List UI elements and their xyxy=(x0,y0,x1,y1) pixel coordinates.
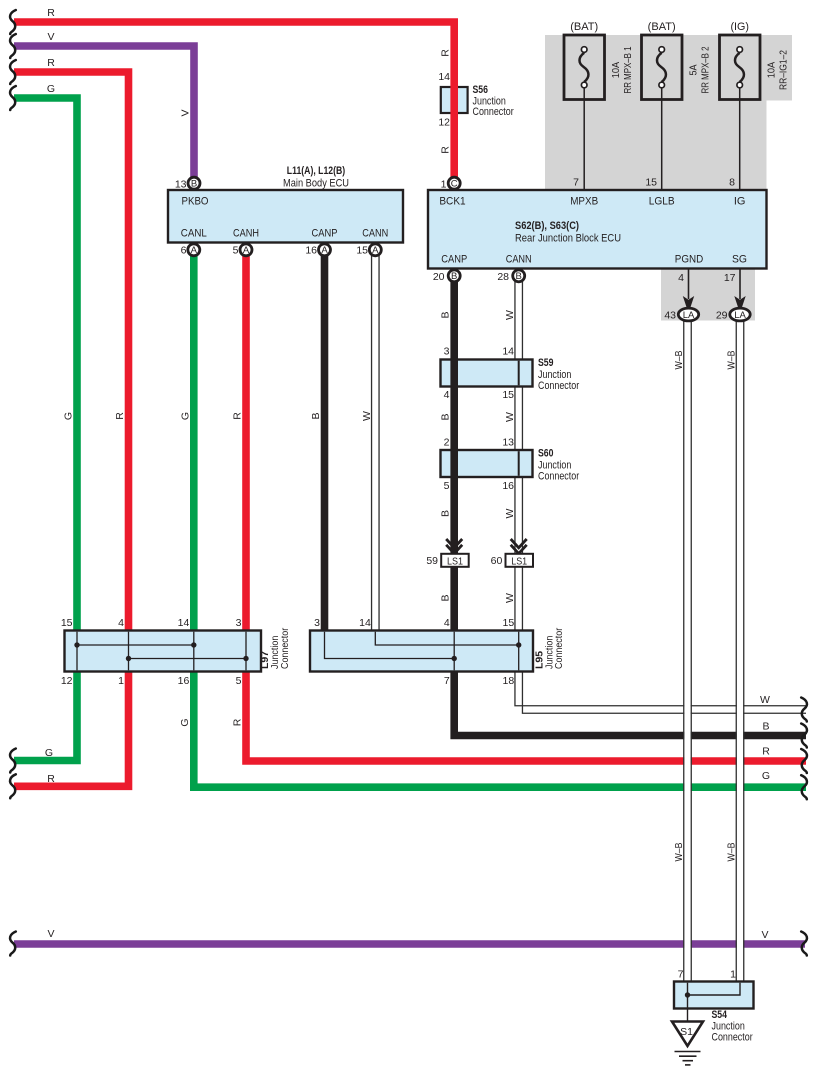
svg-text:G: G xyxy=(47,83,55,95)
svg-text:1: 1 xyxy=(118,675,124,687)
svg-text:5: 5 xyxy=(233,245,239,257)
wire fuse1 to MPXB xyxy=(583,88,585,191)
pin 1 C rear ECU xyxy=(448,177,460,189)
svg-text:V: V xyxy=(47,928,54,940)
svg-text:SG: SG xyxy=(732,254,747,266)
svg-text:IG: IG xyxy=(734,196,746,208)
svg-text:B: B xyxy=(440,311,452,318)
svg-text:(BAT): (BAT) xyxy=(570,21,598,33)
svg-text:20: 20 xyxy=(433,271,445,283)
svg-text:16: 16 xyxy=(178,675,190,687)
svg-text:G: G xyxy=(179,412,191,420)
svg-text:7: 7 xyxy=(444,675,450,687)
svg-text:5: 5 xyxy=(444,480,450,492)
svg-text:14: 14 xyxy=(502,346,514,358)
svg-text:B: B xyxy=(451,271,457,282)
wire V (left edge to main ECU pin 13B) xyxy=(14,46,194,183)
squiggle V bottom left xyxy=(10,932,16,956)
svg-text:R: R xyxy=(232,412,244,420)
svg-text:6: 6 xyxy=(181,245,187,257)
svg-text:43: 43 xyxy=(664,310,676,322)
pin 29 LA oval xyxy=(730,308,750,321)
svg-text:CANP: CANP xyxy=(312,228,338,240)
svg-text:LA: LA xyxy=(683,310,695,321)
svg-text:S60: S60 xyxy=(538,448,554,460)
svg-text:A: A xyxy=(243,245,250,256)
svg-text:18: 18 xyxy=(503,675,515,687)
svg-text:14: 14 xyxy=(178,617,190,629)
wire R below L97 pin 1 to left edge xyxy=(14,671,129,786)
pin 5 A xyxy=(240,244,252,256)
svg-text:28: 28 xyxy=(497,271,509,283)
svg-text:PGND: PGND xyxy=(675,254,704,266)
svg-text:R: R xyxy=(762,746,770,758)
svg-text:B: B xyxy=(516,271,522,282)
wire CANP black (main ECU pin 16A to L95 pin 3) xyxy=(321,252,329,632)
svg-text:13: 13 xyxy=(175,179,187,191)
junction connector S59 box xyxy=(441,360,533,387)
svg-text:CANN: CANN xyxy=(506,254,532,266)
ECU L11/L12 Main Body ECU box xyxy=(168,190,403,243)
squiggle R2 left xyxy=(10,60,16,84)
svg-text:3: 3 xyxy=(444,346,450,358)
svg-text:RR MPX–B 2: RR MPX–B 2 xyxy=(700,46,712,93)
wire CANH red (main ECU pin 5A to L97 pin 3) xyxy=(242,252,250,632)
fuse 5A RR MPX-B 2 xyxy=(642,35,683,100)
svg-text:PKBO: PKBO xyxy=(182,196,209,208)
wire G (left edge down to L97 pin 15) xyxy=(14,98,77,632)
svg-text:R: R xyxy=(232,718,244,726)
svg-text:(IG): (IG) xyxy=(730,21,749,33)
svg-text:Connector: Connector xyxy=(473,106,514,118)
svg-text:A: A xyxy=(321,245,328,256)
svg-text:29: 29 xyxy=(716,310,728,322)
svg-text:Connector: Connector xyxy=(279,627,291,669)
svg-text:B: B xyxy=(440,594,452,601)
ECU S62/S63 Rear Junction Block ECU box xyxy=(428,190,767,269)
svg-text:4: 4 xyxy=(444,617,450,629)
svg-text:RR–IG1–2: RR–IG1–2 xyxy=(778,50,790,90)
pin 15 A xyxy=(369,244,381,256)
wire V bottom (left edge to right edge) xyxy=(14,940,805,948)
svg-text:Connector: Connector xyxy=(553,627,565,669)
svg-text:3: 3 xyxy=(314,617,320,629)
junction connector S54 box xyxy=(674,982,754,1022)
svg-text:G: G xyxy=(179,718,191,726)
junction connector L95 box xyxy=(310,631,533,672)
pin 20 B xyxy=(448,270,460,282)
svg-text:15: 15 xyxy=(503,617,515,629)
fuse 10A RR-IG1-2 xyxy=(720,35,761,100)
wire B below L95 pin 7 to right edge xyxy=(454,671,806,736)
svg-text:R: R xyxy=(440,49,452,57)
wire PGND to LA xyxy=(688,269,690,300)
squiggle G lower left xyxy=(10,749,16,773)
svg-text:W: W xyxy=(504,508,516,518)
pin 6 A xyxy=(188,244,200,256)
svg-text:5: 5 xyxy=(236,675,242,687)
svg-text:CANH: CANH xyxy=(233,228,259,240)
squiggle V left xyxy=(10,34,16,58)
svg-text:4: 4 xyxy=(678,272,684,284)
svg-text:S1: S1 xyxy=(680,1026,693,1038)
svg-text:A: A xyxy=(372,245,379,256)
svg-text:B: B xyxy=(440,413,452,420)
svg-text:LS1: LS1 xyxy=(447,556,463,568)
junction connector L97 box xyxy=(65,631,262,672)
LS1 connector 59 xyxy=(441,539,469,567)
svg-text:S62(B), S63(C): S62(B), S63(C) xyxy=(515,220,579,232)
svg-text:7: 7 xyxy=(678,969,684,981)
svg-text:R: R xyxy=(47,773,55,785)
svg-text:L11(A), L12(B): L11(A), L12(B) xyxy=(287,165,346,177)
svg-text:W: W xyxy=(504,310,516,320)
svg-text:(BAT): (BAT) xyxy=(648,21,676,33)
wire G below L97 pin 16 to right edge xyxy=(194,671,806,787)
svg-text:RR MPX–B 1: RR MPX–B 1 xyxy=(622,46,634,93)
ground S1 xyxy=(672,1022,703,1065)
svg-text:CANN: CANN xyxy=(362,228,388,240)
svg-text:W–B: W–B xyxy=(726,351,738,370)
junction connector S60 box xyxy=(441,450,533,477)
wire SG to LA xyxy=(739,269,741,300)
svg-text:G: G xyxy=(45,747,53,759)
svg-text:10A: 10A xyxy=(610,62,622,79)
svg-text:V: V xyxy=(180,109,192,116)
svg-text:12: 12 xyxy=(438,117,450,129)
svg-text:LS1: LS1 xyxy=(511,556,527,568)
pin 28 B xyxy=(513,270,525,282)
squiggle W right xyxy=(801,698,807,722)
svg-text:R: R xyxy=(440,146,452,154)
wire CANP black (rear ECU pin 20B through S59 S60 LS1 to L95 pin 4) xyxy=(450,278,458,632)
svg-text:V: V xyxy=(761,929,768,941)
svg-text:15: 15 xyxy=(61,617,73,629)
squiggle R top left xyxy=(10,10,16,34)
svg-text:5A: 5A xyxy=(688,65,700,76)
wire W-B right (LA 29 to S54 pin 1) xyxy=(736,321,744,983)
svg-text:R: R xyxy=(114,412,126,420)
pin 13 B main ECU xyxy=(188,177,200,189)
svg-text:CANL: CANL xyxy=(181,228,207,240)
svg-text:16: 16 xyxy=(502,480,514,492)
wire W white (L95 pin 18 to right edge) xyxy=(515,671,806,713)
svg-text:B: B xyxy=(762,721,769,733)
pin 43 LA oval xyxy=(678,308,698,321)
svg-text:15: 15 xyxy=(502,389,514,401)
svg-text:R: R xyxy=(47,57,55,69)
wire fuse3 to IG xyxy=(739,88,741,191)
svg-text:W: W xyxy=(504,593,516,603)
svg-text:Rear Junction Block ECU: Rear Junction Block ECU xyxy=(515,233,621,245)
svg-text:S59: S59 xyxy=(538,357,554,369)
wire G below L97 pin 12 to left edge xyxy=(14,671,77,761)
svg-text:1: 1 xyxy=(730,969,736,981)
svg-text:13: 13 xyxy=(502,437,514,449)
svg-text:17: 17 xyxy=(724,272,736,284)
svg-text:W–B: W–B xyxy=(673,843,685,862)
svg-text:B: B xyxy=(310,412,322,419)
svg-text:LA: LA xyxy=(734,310,746,321)
svg-text:14: 14 xyxy=(438,71,450,83)
junction connector S56 box xyxy=(441,87,468,113)
svg-text:4: 4 xyxy=(118,617,124,629)
svg-text:4: 4 xyxy=(444,389,450,401)
svg-text:7: 7 xyxy=(573,177,579,189)
svg-text:W–B: W–B xyxy=(673,351,685,370)
svg-text:C: C xyxy=(451,178,458,189)
wire fuse2 to LGLB xyxy=(661,88,663,191)
squiggle V bottom right xyxy=(801,932,807,956)
svg-text:Connector: Connector xyxy=(538,380,579,392)
svg-text:Main Body ECU: Main Body ECU xyxy=(283,178,349,190)
svg-text:16: 16 xyxy=(305,245,317,257)
svg-text:W: W xyxy=(361,411,373,421)
gray fuse block extension right xyxy=(765,35,792,101)
svg-text:Connector: Connector xyxy=(538,471,579,483)
wire CANL green (main ECU pin 6A to L97 pin 14) xyxy=(190,252,198,632)
squiggle R right xyxy=(801,749,807,773)
svg-text:CANP: CANP xyxy=(441,254,467,266)
svg-text:R: R xyxy=(47,7,55,19)
svg-text:2: 2 xyxy=(444,437,450,449)
gray fuse block background xyxy=(545,35,767,190)
svg-text:Connector: Connector xyxy=(712,1032,753,1044)
svg-text:S56: S56 xyxy=(473,84,489,96)
svg-text:3: 3 xyxy=(236,617,242,629)
svg-text:60: 60 xyxy=(491,555,503,567)
svg-text:A: A xyxy=(191,245,198,256)
svg-text:G: G xyxy=(63,412,75,420)
pin 16 A xyxy=(319,244,331,256)
svg-text:15: 15 xyxy=(356,245,368,257)
svg-text:W: W xyxy=(760,694,770,706)
svg-text:W: W xyxy=(504,412,516,422)
squiggle G left xyxy=(10,86,16,110)
svg-text:B: B xyxy=(440,510,452,517)
wire R top (left edge to S56 to rear ECU pin 1C) xyxy=(14,22,454,189)
squiggle G right xyxy=(801,775,807,799)
svg-text:MPXB: MPXB xyxy=(570,196,598,208)
LS1 connector 60 xyxy=(506,539,534,567)
wire R below L97 pin 5 to right edge xyxy=(246,671,806,761)
svg-text:S54: S54 xyxy=(712,1009,728,1021)
wire R second (left edge down to L97 pin 4) xyxy=(14,72,129,632)
squiggle B right xyxy=(801,724,807,748)
svg-text:BCK1: BCK1 xyxy=(439,196,465,208)
svg-text:G: G xyxy=(762,770,770,782)
wire W-B left (LA 43 to S54 pin 7) xyxy=(684,321,692,983)
svg-text:12: 12 xyxy=(61,675,73,687)
svg-text:1: 1 xyxy=(441,179,447,191)
svg-text:W–B: W–B xyxy=(726,843,738,862)
wire CANN white (rear ECU pin 28B down to L95 pin 15) xyxy=(515,278,523,632)
svg-text:10A: 10A xyxy=(766,62,778,79)
gray PGND/SG block xyxy=(661,269,755,321)
svg-text:8: 8 xyxy=(729,177,735,189)
wire CANN white (main ECU pin 15A to L95 pin 14) xyxy=(372,252,380,632)
svg-text:B: B xyxy=(191,178,197,189)
svg-text:59: 59 xyxy=(426,555,438,567)
svg-text:V: V xyxy=(47,31,54,43)
svg-text:14: 14 xyxy=(359,617,371,629)
fuse 10A RR MPX-B 1 xyxy=(564,35,605,100)
svg-text:15: 15 xyxy=(645,177,657,189)
squiggle R lower left xyxy=(10,774,16,798)
svg-text:LGLB: LGLB xyxy=(649,196,675,208)
